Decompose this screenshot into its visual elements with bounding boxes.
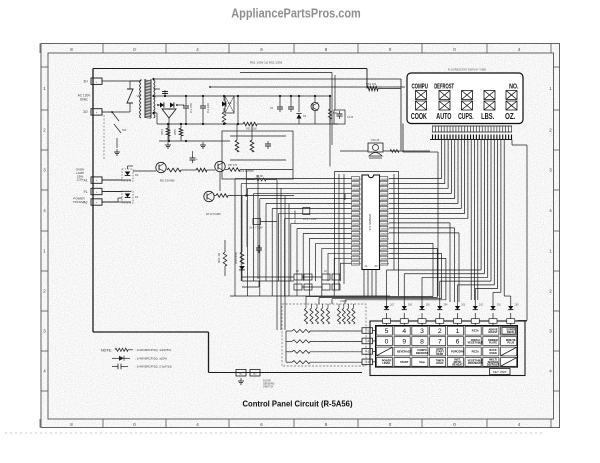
svg-text:R61 1K: R61 1K [217,253,221,263]
svg-text:R54: R54 [160,129,164,135]
svg-text:FLUORESCENT DISPLAY TUBE: FLUORESCENT DISPLAY TUBE [448,68,487,72]
svg-text:D5: D5 [228,101,232,105]
svg-text:REHEAT: REHEAT [452,363,463,367]
svg-text:LEVEL: LEVEL [382,361,391,365]
svg-text:NOTE:: NOTE: [101,349,112,353]
svg-text:ICL 8088A: ICL 8088A [293,210,297,223]
svg-text:4-3: 4-3 [365,350,369,354]
svg-text:PL: PL [84,190,88,194]
svg-text:DEFROST: DEFROST [434,81,454,90]
svg-text:HOLD: HOLD [436,361,443,365]
svg-text:RC 88: RC 88 [256,175,263,178]
svg-text:C2 100: C2 100 [206,103,210,113]
svg-text:B1: B1 [239,372,243,376]
svg-text:P.ZZA: P.ZZA [472,329,479,333]
svg-text:D4: D4 [135,195,139,199]
svg-text:DEFR.: DEFR. [507,330,515,334]
svg-text:DEFROST: DEFROST [416,351,429,355]
svg-text:B2: B2 [253,372,257,376]
svg-text:DEFR: DEFR [436,352,443,356]
svg-text:IC2 LM555: IC2 LM555 [240,169,254,173]
svg-text:3: 3 [420,328,424,335]
svg-text:DEFROST: DEFROST [487,363,500,367]
svg-text:R66 56K: R66 56K [234,252,238,264]
svg-text:PLUS: PLUS [507,340,514,344]
svg-text:R51 1W: R51 1W [366,82,376,86]
svg-text:0: 0 [385,339,389,346]
svg-text:CF-B: CF-B [347,115,353,119]
svg-text:COMPU: COMPU [411,81,428,90]
svg-text:•: • [96,80,97,84]
svg-text:6: 6 [456,339,460,346]
svg-text:•: • [96,179,97,183]
svg-text:BD 2SA456: BD 2SA456 [160,179,175,183]
svg-text:IC1 SM8020: IC1 SM8020 [368,213,372,230]
svg-text:AUTO: AUTO [436,112,451,121]
svg-text:Stop: Stop [419,360,425,364]
svg-text:60Hz: 60Hz [80,98,88,102]
svg-text:LM 4.7 1/2W: LM 4.7 1/2W [249,227,263,230]
svg-text:ROAST: ROAST [489,330,498,334]
svg-text:RT-4.7 1/2W: RT-4.7 1/2W [303,218,317,221]
svg-text:PIZZA: PIZZA [472,350,480,354]
svg-text:•: • [96,201,97,205]
svg-text:4-2: 4-2 [365,339,369,343]
svg-text:OSC-B: OSC-B [371,138,380,142]
svg-text:LBS.: LBS. [481,112,494,121]
svg-text:8: 8 [420,339,424,346]
svg-text:Control Panel Circuit (R-5A56): Control Panel Circuit (R-5A56) [243,400,353,409]
svg-text:: 1/4W BRCP.SQ. 2.2uF/16r: : 1/4W BRCP.SQ. 2.2uF/16r [135,365,172,369]
svg-text:+: + [196,157,198,161]
svg-text:9: 9 [402,339,406,346]
svg-text:R55: R55 [173,129,177,135]
svg-text:3H: 3H [83,80,88,84]
svg-text:2: 2 [438,328,442,335]
svg-text:4-4: 4-4 [365,360,369,364]
svg-text:NO.: NO. [509,81,518,90]
svg-text:AppliancePartsPros.com: AppliancePartsPros.com [231,5,361,20]
svg-text:SW: SW [122,128,127,132]
svg-text:RT ETC485: RT ETC485 [206,212,221,216]
svg-text:CUPS.: CUPS. [458,112,474,121]
svg-text:POPCORN: POPCORN [451,350,464,354]
svg-text:KEY UNIT: KEY UNIT [493,370,507,374]
svg-text:4: 4 [402,328,406,335]
svg-text:VEGETABLE: VEGETABLE [468,340,484,344]
svg-text:SWITCH: SWITCH [263,385,273,389]
svg-text:D3: D3 [135,173,139,177]
svg-text:7: 7 [438,339,442,346]
svg-text:: 1/4W BRCP.SQ. ±20%: : 1/4W BRCP.SQ. ±20% [135,357,167,361]
svg-text:R51 1/2W 1Ω R52 1/2W: R51 1/2W 1Ω R52 1/2W [250,61,282,65]
svg-text:START: START [400,360,409,364]
svg-text:5: 5 [385,328,389,335]
svg-text:1: 1 [456,328,460,335]
svg-text:PLATE: PLATE [489,340,497,344]
svg-text:4-1: 4-1 [365,329,369,333]
svg-text:•: • [96,111,97,115]
svg-text:FROZEN.FD: FROZEN.FD [468,361,483,365]
svg-text:C1 470: C1 470 [189,103,193,113]
svg-text:COOK: COOK [411,112,427,121]
svg-text:3O: 3O [83,110,88,114]
svg-text:OZ.: OZ. [505,112,515,121]
svg-text:TRANSF.: TRANSF. [73,200,86,204]
svg-text:: 1/4W BRCP.SQ. 1/16±5%: : 1/4W BRCP.SQ. 1/16±5% [135,348,171,352]
svg-text:R57 470: R57 470 [228,164,238,167]
svg-text:120V: 120V [76,178,83,182]
svg-text:30: 30 [374,264,378,268]
svg-text:•: • [96,190,97,194]
svg-text:A1: A1 [84,178,88,182]
svg-text:BEVERAGE: BEVERAGE [397,350,412,354]
svg-text:OVEN: OVEN [489,351,496,355]
svg-text:21: 21 [364,264,368,268]
